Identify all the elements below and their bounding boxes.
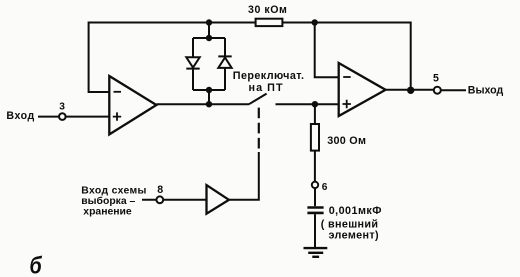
buffer U3 — [207, 185, 229, 214]
svg-text:элемент): элемент) — [329, 229, 380, 241]
svg-text:хранение: хранение — [83, 206, 132, 217]
terminal pin 6 circle — [312, 182, 318, 188]
node junction dot switch wire / 300 Om tap — [312, 101, 318, 107]
node junction dot top rail left (diode tap) — [206, 19, 212, 25]
wire pin 5 to output label — [441, 89, 466, 91]
wire input to U1 plus — [38, 116, 109, 118]
wire resistor to pin 6 — [314, 151, 316, 182]
wire switch right side to U2 plus — [276, 103, 339, 105]
svg-text:30 кОм: 30 кОм — [248, 4, 287, 16]
resistor R1 30kOm body — [256, 19, 283, 26]
wire stub from top rail to diode box — [208, 23, 210, 39]
svg-text:5: 5 — [433, 72, 439, 84]
terminal pin 3 circle — [59, 113, 66, 120]
node junction dot diode box bottom — [206, 87, 212, 93]
wire capacitor to ground — [314, 214, 316, 247]
terminal pin 8 circle — [156, 196, 163, 203]
node junction dot top rail right (U2 minus tap) — [312, 19, 318, 25]
svg-text:Выход: Выход — [468, 84, 504, 96]
wire U2 minus input from top rail — [315, 23, 339, 78]
svg-text:6: 6 — [322, 182, 328, 193]
terminal pin 5 circle — [434, 87, 441, 94]
svg-text:Переключат.: Переключат. — [233, 70, 305, 82]
wire sample-hold input to pin 8 — [142, 199, 207, 201]
diode D1 (left, pointing down) — [186, 57, 199, 68]
wire U1 output to switch — [156, 103, 249, 105]
wire stub diode box to U1 output wire — [208, 90, 210, 104]
svg-text:Вход: Вход — [6, 110, 34, 122]
svg-text:на ПТ: на ПТ — [249, 82, 284, 94]
wire 300 Om branch down — [314, 104, 316, 124]
node junction dot diode box top — [206, 35, 212, 41]
svg-text:б: б — [30, 252, 43, 277]
wire diode box top horizontal — [193, 37, 225, 39]
capacitor C1 plates — [307, 208, 323, 213]
wire U2 output — [386, 89, 435, 91]
wire dashed switch control line — [258, 108, 260, 149]
diode D2 (right, pointing up) — [218, 56, 231, 68]
wire diode right branch vertical — [224, 38, 226, 90]
wire diode left branch vertical — [192, 38, 194, 90]
svg-text:8: 8 — [157, 184, 163, 196]
svg-text:Вход схемы: Вход схемы — [81, 186, 146, 197]
ground symbol — [304, 248, 328, 257]
wire pin 6 to capacitor — [314, 188, 316, 206]
switch on FT: open arm — [249, 94, 267, 105]
svg-text:300 Ом: 300 Ом — [327, 135, 366, 147]
wire diode box bottom horizontal — [193, 89, 225, 91]
op-amp U2 — [339, 63, 386, 116]
resistor R2 300 Om body — [311, 124, 319, 151]
svg-text:0,001мкФ: 0,001мкФ — [329, 205, 382, 217]
wire buffer output to switch control (solid part) — [229, 152, 259, 200]
svg-text:выборка –: выборка – — [81, 195, 135, 207]
op-amp U1 — [109, 76, 156, 134]
wire from R1 right to output node of U2 — [282, 23, 410, 91]
svg-text:3: 3 — [59, 102, 65, 113]
node output junction dot — [407, 87, 414, 94]
node junction dot on U1 output wire — [206, 101, 212, 107]
wire feedback rail: op-amp U1 minus input up and right to R1 — [89, 23, 256, 93]
